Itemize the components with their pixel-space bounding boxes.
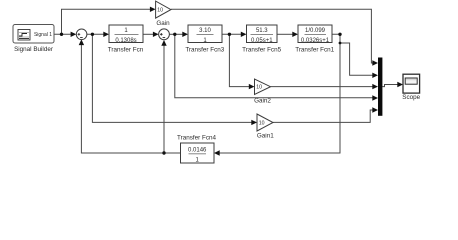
svg-text:Transfer Fcn5: Transfer Fcn5 (242, 47, 281, 54)
svg-text:Transfer Fcn3: Transfer Fcn3 (185, 47, 224, 54)
svg-text:Signal 1: Signal 1 (34, 32, 52, 38)
svg-text:Signal Builder: Signal Builder (14, 46, 53, 53)
svg-text:1/0.099: 1/0.099 (305, 28, 326, 34)
svg-text:Gain2: Gain2 (254, 97, 271, 104)
svg-text:51.3: 51.3 (256, 28, 268, 34)
svg-text:3.10: 3.10 (199, 28, 211, 34)
svg-text:0.1308s: 0.1308s (115, 38, 136, 44)
svg-text:10: 10 (256, 85, 262, 91)
svg-text:Transfer Fcn: Transfer Fcn (108, 47, 144, 54)
svg-text:Gain: Gain (156, 20, 170, 27)
svg-text:10: 10 (157, 8, 163, 14)
svg-text:0.05s+1: 0.05s+1 (251, 38, 273, 44)
svg-text:Gain1: Gain1 (257, 133, 274, 140)
svg-text:0.0326s+1: 0.0326s+1 (301, 38, 330, 44)
svg-text:10: 10 (259, 121, 265, 127)
svg-text:0.0146: 0.0146 (188, 148, 207, 154)
svg-text:Scope: Scope (402, 94, 420, 101)
svg-text:Transfer Fcn1: Transfer Fcn1 (295, 47, 334, 54)
svg-text:Transfer Fcn4: Transfer Fcn4 (177, 134, 216, 141)
